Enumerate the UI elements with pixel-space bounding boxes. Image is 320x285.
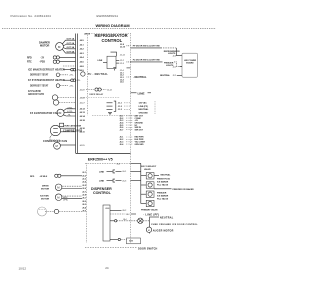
- svg-text:J8-5: J8-5: [82, 211, 86, 213]
- svg-text:-AUX-: -AUX-: [63, 196, 68, 199]
- inductor valve coil 4: [146, 200, 154, 206]
- svg-text:-HI-: -HI-: [68, 115, 72, 117]
- svg-text:SER OUT: SER OUT: [135, 129, 144, 131]
- svg-text:-RPM-: -RPM-: [63, 199, 68, 201]
- node pin J2-12: [120, 55, 126, 57]
- resistor ice maker defrost heater label: [28, 69, 65, 72]
- svg-text:J4-2: J4-2: [117, 164, 121, 166]
- svg-text:LINE: LINE: [99, 171, 105, 173]
- wire drive motor 2: [62, 188, 82, 190]
- svg-text:FRESH FOOD: FRESH FOOD: [157, 179, 171, 181]
- motor crusher drive label: [41, 186, 50, 191]
- wire damper out3: [63, 48, 75, 49]
- node pin J4 top disp: [117, 164, 121, 166]
- svg-text:RUN CAPACITOR: RUN CAPACITOR: [65, 124, 82, 127]
- svg-text:FZ DOOR SW & LIGHT SW: FZ DOOR SW & LIGHT SW: [133, 59, 161, 61]
- svg-text:J2-8: J2-8: [82, 195, 86, 197]
- svg-text:J4-14: J4-14: [80, 115, 86, 118]
- svg-text:MOTOR: MOTOR: [40, 45, 49, 48]
- wire damper out4: [62, 49, 75, 53]
- svg-text:-175-: -175-: [69, 75, 74, 77]
- node neutral label: [88, 73, 109, 76]
- svg-text:J2-1: J2-1: [173, 66, 177, 68]
- wire compressor com: [61, 131, 76, 133]
- node damper wire labels: [67, 38, 75, 54]
- wire line feed 2: [107, 179, 122, 182]
- svg-text:FZ EVAPORATOR FAN: FZ EVAPORATOR FAN: [30, 112, 59, 115]
- node defrost relay label: [89, 93, 103, 96]
- wire W MLK: [61, 175, 82, 177]
- wire J5 dashes: [126, 116, 133, 130]
- node LED power board neutral label: [160, 74, 171, 77]
- wire compressor run: [61, 127, 76, 129]
- node refrigerator control title: [95, 33, 128, 43]
- motor compressor: [50, 125, 60, 135]
- resistor air duct heater: [52, 95, 75, 100]
- wire damper out1: [62, 40, 75, 44]
- node valve neutral label: [161, 173, 172, 176]
- node pin J2-14: [107, 89, 112, 91]
- node pin J8-2 line PF: [126, 214, 130, 216]
- node LED power board label: [184, 60, 197, 65]
- node tstat1 code: [69, 75, 74, 77]
- wire line feed 1: [107, 170, 122, 173]
- svg-text:ICE MAKER DEFROST HEATER: ICE MAKER DEFROST HEATER: [28, 69, 65, 72]
- svg-text:EW26SS65GS1: EW26SS65GS1: [97, 14, 119, 18]
- svg-text:ERF2500++ V5: ERF2500++ V5: [88, 158, 113, 162]
- svg-text:M: M: [148, 230, 150, 232]
- resistor drain heater: [53, 100, 75, 105]
- node FF door label: [133, 45, 161, 47]
- node dispenser control title: [91, 187, 112, 195]
- svg-text:OUT 1A: OUT 1A: [67, 38, 75, 41]
- node pins J2-2 J2-3: [120, 60, 125, 65]
- svg-text:BOARD: BOARD: [186, 61, 194, 64]
- svg-text:CONTROL: CONTROL: [102, 38, 123, 43]
- wire relay right pins: [116, 60, 119, 63]
- svg-text:FREEZER: FREEZER: [157, 193, 167, 195]
- node pin J8-4b: [123, 219, 127, 221]
- svg-text:DEFROST TSTAT: DEFROST TSTAT: [30, 74, 49, 77]
- svg-text:J5-7: J5-7: [120, 129, 124, 131]
- svg-text:-ORG-: -ORG-: [67, 107, 73, 109]
- node pins J4-12..14: [80, 108, 86, 123]
- op-amp refrigerator control board box top: [88, 33, 131, 35]
- connector J5 serial cluster: [120, 116, 125, 132]
- node J5 labels: [135, 115, 144, 132]
- node fresh food valve label: [157, 179, 171, 187]
- wire J2-8 out: [127, 67, 131, 69]
- svg-text:ICE MAKER: ICE MAKER: [157, 195, 169, 198]
- svg-text:LINE: LINE: [105, 208, 110, 210]
- svg-text:J2-10: J2-10: [120, 47, 126, 49]
- svg-text:DRIVE: DRIVE: [42, 186, 49, 188]
- connector RFD: [53, 56, 59, 59]
- node cube crushed label: [151, 224, 198, 226]
- op-amp refrigerator control board box bottom: [92, 115, 136, 117]
- connector RTC: [53, 60, 59, 63]
- node FZ door label: [133, 59, 161, 61]
- svg-text:FF DOOR SW & LIGHT SW: FF DOOR SW & LIGHT SW: [133, 45, 161, 47]
- wire FF door switch: [127, 46, 183, 56]
- svg-text:NEUTRAL: NEUTRAL: [160, 74, 171, 77]
- inductor valve coil 3: [146, 191, 154, 197]
- svg-text:AUGER MOTOR: AUGER MOTOR: [153, 230, 174, 233]
- node thermistor RFD label: [27, 57, 45, 59]
- wire damper out2: [63, 45, 75, 46]
- wire FZ door switch: [127, 62, 183, 67]
- node pin J4-1 disp: [122, 171, 127, 173]
- svg-text:SECONDARY: SECONDARY: [141, 165, 157, 168]
- motor ice fan label: [40, 195, 50, 201]
- svg-text:NEUTRAL: NEUTRAL: [139, 108, 150, 111]
- connector J1 power pins: [107, 101, 116, 111]
- resistor FZ defrost heater label: [28, 79, 65, 82]
- svg-text:OUT 2A: OUT 2A: [67, 42, 75, 45]
- svg-text:J2-14: J2-14: [107, 89, 112, 91]
- thermostat defrost 2 label: [30, 85, 49, 88]
- svg-text:GROUND: GROUND: [139, 113, 149, 115]
- svg-text:DEFR RELAY: DEFR RELAY: [89, 93, 103, 96]
- node pin J4-17: [80, 102, 86, 104]
- node freezer valve label: [157, 193, 169, 201]
- svg-text:J2-12: J2-12: [120, 55, 126, 57]
- node run capacitor label: [65, 124, 82, 127]
- svg-text:J4-19: J4-19: [80, 89, 86, 91]
- node secondary valve label: [141, 165, 157, 171]
- switch door switch: [127, 238, 141, 244]
- wire compressor ground: [50, 135, 60, 140]
- node ERF2500 title: [88, 158, 113, 162]
- svg-text:MOTOR: MOTOR: [41, 199, 50, 201]
- svg-text:FILL VALVE: FILL VALVE: [157, 184, 169, 187]
- node pin J4-16: [80, 97, 86, 99]
- svg-text:AIR DUCT HTR: AIR DUCT HTR: [28, 93, 44, 96]
- node tstat2 code: [69, 85, 74, 87]
- node pins J2-9 J2-10: [120, 44, 126, 49]
- svg-text:J4-15: J4-15: [80, 145, 86, 147]
- node heater2 code: [76, 80, 81, 82]
- svg-text:J2-3: J2-3: [82, 179, 86, 181]
- node pin J2-4: [120, 70, 125, 72]
- svg-text:J8-2: J8-2: [82, 201, 86, 203]
- relay defrost wire: [86, 88, 107, 91]
- node ice fan codes: [63, 196, 68, 202]
- svg-text:Publication No. 240812404: Publication No. 240812404: [11, 14, 52, 18]
- node power cord labels: [139, 102, 150, 115]
- wire line2 to valves: [131, 180, 142, 182]
- svg-text:J8-1: J8-1: [82, 198, 86, 200]
- motor damper M1 label: [39, 42, 50, 48]
- node pins J1 labels: [118, 103, 123, 112]
- svg-text:-175-: -175-: [69, 85, 74, 87]
- wire evap fan hi: [64, 109, 76, 111]
- wire bottom dashed border: [85, 247, 137, 249]
- node line2 label: [99, 181, 105, 183]
- svg-text:DOOR SWITCH: DOOR SWITCH: [138, 247, 158, 250]
- svg-text:J2-2: J2-2: [173, 75, 177, 77]
- switch door switch label: [138, 247, 158, 250]
- ground board ground: [108, 112, 112, 114]
- wire condenser fan: [60, 144, 75, 146]
- wire valve bus: [141, 164, 146, 204]
- node neutral circle: [81, 72, 85, 76]
- node pin J8-2b: [122, 210, 127, 212]
- wire line PF: [110, 213, 136, 215]
- node pins J3 group: [120, 72, 124, 83]
- capacitor run capacitor: [60, 123, 64, 126]
- wire auger bus: [150, 217, 159, 234]
- svg-text:J8-4: J8-4: [123, 219, 127, 221]
- node pin J4-19: [80, 89, 86, 91]
- node primary valve label: [141, 208, 158, 211]
- svg-text:OUT 3A: OUT 3A: [67, 46, 75, 49]
- node relay LINE label: [98, 60, 103, 62]
- svg-text:-175-: -175-: [76, 69, 81, 71]
- svg-text:J2-2: J2-2: [82, 175, 86, 177]
- svg-text:ICE MAKER: ICE MAKER: [157, 181, 169, 184]
- svg-text:120 VAC: 120 VAC: [139, 102, 148, 105]
- svg-text:PRIMARY VALVE: PRIMARY VALVE: [141, 208, 158, 211]
- node NEUTRAL wire label: [133, 76, 147, 79]
- svg-text:RFD: RFD: [30, 176, 35, 178]
- wire door switch row: [110, 238, 127, 240]
- wire neutral out: [127, 76, 131, 78]
- svg-text:FREEZER ICE MAKER: FREEZER ICE MAKER: [173, 188, 195, 191]
- wire power cord dashes: [124, 101, 155, 114]
- svg-text:LINE: LINE: [99, 181, 105, 183]
- node ice container outline: [38, 207, 47, 216]
- svg-text:J2-3: J2-3: [173, 55, 177, 57]
- motor evaporator fan label: [30, 112, 59, 115]
- svg-text:J2-7: J2-7: [82, 191, 86, 193]
- connector J6 cluster: [120, 137, 125, 146]
- wire LED neutral: [177, 74, 182, 76]
- motor auger: [146, 227, 151, 232]
- wire RTC to J4-6: [59, 61, 75, 63]
- node pin labels J4 left column: [80, 39, 85, 72]
- svg-text:WIRING DIAGRAM: WIRING DIAGRAM: [96, 23, 130, 28]
- node line1 label: [99, 171, 105, 173]
- svg-text:J2-6: J2-6: [82, 188, 86, 190]
- wire LED pin ticks: [180, 66, 183, 68]
- svg-text:- LINE (PF): - LINE (PF): [143, 213, 159, 216]
- resistor air duct heater label: [28, 90, 44, 96]
- svg-text:J8-3: J8-3: [82, 204, 86, 206]
- connector W MLK: [55, 174, 61, 177]
- node publication header text: [11, 14, 52, 18]
- wire heater1: [63, 68, 76, 71]
- wire relay in: [103, 61, 107, 63]
- relay K1 box: [107, 56, 116, 68]
- wire row J4-8 stub: [63, 65, 76, 67]
- thermistor dispenser sensor: [45, 209, 82, 213]
- node refrigerator lights label: [164, 50, 180, 55]
- svg-text:FZ PLASTIC: FZ PLASTIC: [28, 90, 41, 93]
- svg-text:-175-: -175-: [76, 80, 81, 82]
- motor damper M1: [56, 43, 64, 51]
- node freezer ice maker label: [173, 188, 195, 191]
- svg-text:CUBE CRUSHED ICE DOOR CONTROL: CUBE CRUSHED ICE DOOR CONTROL: [151, 224, 198, 226]
- node wire code BK16: [84, 34, 90, 36]
- wire housing line row: [110, 209, 122, 211]
- svg-text:NEUTRAL: NEUTRAL: [160, 216, 174, 219]
- node line PF label: [143, 213, 159, 216]
- node auger neutral label: [160, 216, 174, 219]
- svg-text:GRN GND: GRN GND: [135, 144, 145, 146]
- node LINE wire label: [138, 91, 145, 95]
- wire board divider: [81, 97, 120, 99]
- svg-text:- P2B: - P2B: [39, 62, 45, 64]
- svg-text:RFD: RFD: [27, 57, 32, 59]
- svg-text:LINE: LINE: [138, 91, 145, 95]
- wire evap fan com: [64, 115, 76, 116]
- node heater1 code: [76, 69, 81, 71]
- svg-text:MOTOR: MOTOR: [41, 189, 50, 191]
- wire line1 to valves: [131, 170, 142, 172]
- svg-text:J2-5: J2-5: [82, 185, 86, 187]
- svg-text:J4-17: J4-17: [80, 102, 86, 104]
- wire drive motor 1: [62, 185, 82, 187]
- motor ice fan: [55, 194, 62, 201]
- motor condenser fan: [54, 142, 61, 149]
- wire valve1 right: [154, 175, 159, 177]
- svg-text:VALVE: VALVE: [144, 168, 151, 171]
- svg-text:CONDENSER FAN: CONDENSER FAN: [43, 140, 67, 143]
- svg-text:J4-18: J4-18: [80, 119, 86, 122]
- wire freezer ice maker: [154, 188, 172, 190]
- svg-text:FILL VALVE: FILL VALVE: [157, 198, 169, 201]
- wire line feed top: [76, 153, 131, 155]
- svg-text:- W MLK: - W MLK: [39, 176, 48, 178]
- svg-text:-BK-16: -BK-16: [84, 34, 90, 36]
- svg-text:J2-1: J2-1: [82, 172, 86, 174]
- wire lamp to bracket: [143, 220, 150, 222]
- svg-text:- NEUTRAL: - NEUTRAL: [133, 76, 147, 79]
- node pins compressor: [80, 127, 86, 134]
- svg-text:- 3Y: - 3Y: [40, 57, 45, 59]
- wire RFD to J4-4: [59, 56, 75, 58]
- node thermistor RTC label: [27, 62, 45, 64]
- wire evap fan low: [64, 111, 75, 113]
- svg-text:-LOW-: -LOW-: [67, 111, 73, 113]
- op-amp refrigerator control board box left: [87, 34, 89, 116]
- thermostat defrost 2: [56, 84, 68, 88]
- node pin J4-3 disp: [122, 180, 127, 182]
- thermostat defrost 1 label: [30, 74, 49, 77]
- svg-text:DEFROST TSTAT: DEFROST TSTAT: [30, 85, 49, 88]
- node footer date: [19, 266, 27, 270]
- svg-text:NEUTRAL: NEUTRAL: [161, 173, 172, 176]
- node WIRING DIAGRAM title: [96, 23, 130, 28]
- wire ice fan 2: [62, 197, 82, 199]
- wire relay bottom pin: [113, 67, 116, 70]
- lamp dispenser light: [110, 218, 143, 223]
- motor evaporator fan: [57, 109, 64, 116]
- svg-text:J4-12: J4-12: [80, 108, 86, 111]
- node freezer lights label: [164, 63, 174, 67]
- wire valve feed top: [131, 163, 142, 165]
- node dispenser pin column: [82, 172, 87, 212]
- svg-text:OUT 4A: OUT 4A: [67, 51, 75, 54]
- svg-text:ICE FAN: ICE FAN: [40, 195, 49, 198]
- wire harness bus right: [77, 34, 79, 154]
- node LED board pins: [173, 55, 177, 77]
- svg-text:J4-10: J4-10: [80, 127, 86, 130]
- svg-text:DISPENSER: DISPENSER: [91, 187, 112, 191]
- node compressor label: [63, 130, 82, 133]
- svg-text:LINE (PF): LINE (PF): [139, 106, 149, 108]
- connector dispenser housing: [103, 205, 110, 241]
- op-amp dispenser board box left: [86, 163, 88, 243]
- wire ice fan 1: [62, 195, 82, 197]
- svg-text:J3-5: J3-5: [120, 82, 124, 84]
- node footer page number: [105, 266, 109, 270]
- node line3 label: [105, 208, 110, 210]
- svg-text:FZ SYSTEM DEFROST HEATER: FZ SYSTEM DEFROST HEATER: [28, 79, 65, 82]
- svg-text:RTC: RTC: [27, 62, 32, 64]
- svg-text:LINE: LINE: [98, 60, 103, 62]
- op-amp LED power board box: [182, 53, 198, 77]
- node evap fan wire labels: [67, 107, 73, 116]
- op-amp dispenser board box top: [85, 162, 131, 164]
- motor condenser fan label: [43, 140, 67, 143]
- node pin J4-15: [80, 145, 86, 147]
- svg-text:TU - NEUTRAL: TU - NEUTRAL: [88, 73, 109, 76]
- motor crusher drive: [55, 184, 62, 191]
- node auger motor label: [153, 230, 174, 233]
- wire heater2: [63, 79, 76, 82]
- inductor valve coil 1: [146, 173, 154, 179]
- wire J6 dashes: [126, 137, 133, 144]
- svg-text:24: 24: [105, 266, 109, 270]
- wire relay coil top: [111, 52, 117, 56]
- wire header dotted separator: [2, 28, 216, 30]
- inductor valve coil 2: [146, 182, 154, 188]
- wire LINE out: [131, 92, 152, 94]
- thermostat defrost 1: [56, 73, 68, 77]
- svg-text:J4-13: J4-13: [80, 111, 86, 114]
- wire harness bus left: [75, 34, 77, 154]
- svg-text:CONTROL: CONTROL: [93, 191, 112, 195]
- svg-text:J4-11: J4-11: [80, 131, 86, 134]
- node RFD W MLK label: [30, 176, 48, 178]
- node model number text: [97, 14, 119, 18]
- node J6 labels: [135, 137, 146, 146]
- svg-text:J8-2: J8-2: [126, 214, 130, 216]
- wire right harness vertical: [130, 34, 132, 244]
- svg-text:10/12: 10/12: [19, 266, 27, 270]
